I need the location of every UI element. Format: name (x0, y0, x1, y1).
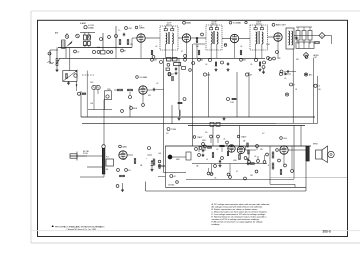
svg-text:.02: .02 (283, 71, 286, 73)
svg-text:1M: 1M (249, 74, 252, 76)
svg-text:47: 47 (181, 51, 183, 53)
svg-text:.001: .001 (90, 103, 93, 105)
svg-text:68: 68 (106, 169, 108, 171)
svg-text:10: 10 (206, 159, 208, 161)
svg-text:.01: .01 (223, 139, 225, 141)
svg-text:100: 100 (196, 46, 199, 48)
svg-text:readings.: readings. (212, 223, 221, 226)
svg-text:8: 8 (268, 165, 269, 167)
svg-text:V-3 6BE6: V-3 6BE6 (140, 77, 148, 79)
svg-text:VOL: VOL (128, 170, 131, 172)
svg-text:366-6: 366-6 (322, 230, 331, 234)
svg-text:V-5 6BA6: V-5 6BA6 (233, 22, 241, 25)
svg-text:.02: .02 (156, 83, 158, 85)
svg-text:PLUG: PLUG (83, 153, 88, 155)
svg-text:.05: .05 (77, 51, 80, 53)
svg-text:12AX7: 12AX7 (197, 136, 202, 139)
svg-text:OUT: OUT (314, 57, 318, 59)
svg-text:.05: .05 (240, 46, 242, 48)
svg-text:470K: 470K (133, 108, 138, 110)
svg-text:.005: .005 (158, 153, 161, 155)
svg-text:47: 47 (236, 171, 238, 173)
svg-text:TONE: TONE (171, 129, 177, 131)
svg-text:.05: .05 (284, 78, 286, 80)
svg-text:.02: .02 (173, 176, 176, 178)
svg-text:V-6: V-6 (205, 132, 208, 134)
svg-text:262 KC: 262 KC (166, 24, 173, 26)
svg-text:.05: .05 (205, 64, 207, 66)
svg-text:150: 150 (318, 89, 321, 91)
svg-text:100: 100 (243, 60, 246, 62)
svg-text:3-30: 3-30 (97, 47, 100, 49)
svg-text:V-7: V-7 (262, 133, 265, 135)
svg-text:12BE6: 12BE6 (139, 28, 144, 30)
svg-text:6X4: 6X4 (284, 138, 287, 140)
svg-text:ANT: ANT (55, 32, 58, 35)
svg-text:.02: .02 (216, 149, 218, 151)
svg-text:.05: .05 (254, 156, 256, 158)
svg-text:.01: .01 (171, 74, 174, 76)
svg-text:68: 68 (201, 60, 203, 62)
svg-text:262 KC: 262 KC (256, 23, 263, 25)
svg-text:IF AMP: IF AMP (80, 22, 87, 25)
svg-text:115V AC: 115V AC (168, 184, 175, 187)
svg-text:.05: .05 (250, 64, 252, 66)
svg-text:1.5: 1.5 (118, 30, 120, 32)
svg-text:SPKR: SPKR (313, 144, 318, 146)
svg-text:OSC: OSC (128, 28, 133, 30)
svg-text:6AV6: 6AV6 (123, 146, 127, 149)
svg-text:.05: .05 (214, 178, 216, 180)
svg-text:47: 47 (124, 50, 126, 52)
svg-text:RATIO DET: RATIO DET (276, 24, 287, 27)
svg-text:470: 470 (123, 159, 126, 161)
svg-text:PHOTOFACT STANDARD NOTATION SC: PHOTOFACT STANDARD NOTATION SCHEMATIC (55, 225, 105, 228)
svg-text:.05: .05 (155, 46, 157, 48)
svg-text:12AX7: 12AX7 (241, 136, 246, 139)
svg-text:12BA6: 12BA6 (88, 27, 94, 30)
svg-text:220: 220 (154, 60, 157, 62)
svg-text:6BA6: 6BA6 (186, 22, 191, 25)
